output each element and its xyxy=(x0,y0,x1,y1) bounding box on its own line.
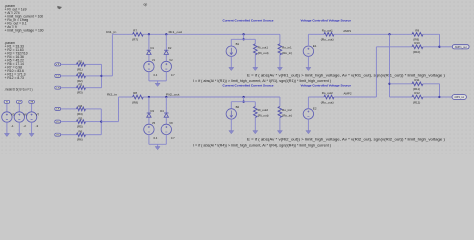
resistor R9 xyxy=(412,28,423,41)
svg-text:0.7: 0.7 xyxy=(171,73,175,77)
svg-text:AMP1: AMP1 xyxy=(343,29,351,33)
svg-text:{R12}: {R12} xyxy=(413,100,420,104)
resistor Ri_out2 xyxy=(254,102,269,131)
wire bank to rail Ri1_in xyxy=(102,75,113,77)
wire feedback A R10 to AMP2 xyxy=(375,47,377,97)
wire lower node bottom xyxy=(231,101,255,103)
junction top output node xyxy=(438,46,440,48)
wire E2 to Ro_out2 xyxy=(308,96,324,98)
ground bottom clamp xyxy=(157,144,159,146)
svg-text:D1: D1 xyxy=(151,46,155,50)
junction top bank xyxy=(100,75,102,77)
resistor R10 xyxy=(376,41,439,54)
svg-text:R11: R11 xyxy=(414,78,419,82)
current source B1 xyxy=(226,39,239,67)
svg-text:B2: B2 xyxy=(236,105,240,109)
svg-text:Ro_out1: Ro_out1 xyxy=(322,29,333,33)
svg-text:B1: B1 xyxy=(236,42,240,46)
svg-text:{R5}: {R5} xyxy=(77,125,83,129)
svg-text:R9: R9 xyxy=(415,28,419,32)
wire top rail left xyxy=(112,33,132,35)
wire to output port 1 xyxy=(440,46,453,48)
svg-text:0.4: 0.4 xyxy=(154,136,158,140)
svg-text:D3: D3 xyxy=(151,109,155,113)
resistor R12 xyxy=(412,91,440,104)
svg-text:Ro_in2: Ro_in2 xyxy=(282,108,292,112)
svg-text:{R7}: {R7} xyxy=(132,38,138,42)
voltage source E2 xyxy=(303,97,317,131)
svg-text:-2: -2 xyxy=(23,124,26,128)
junction D1 branch xyxy=(148,33,150,35)
ground Ro_in2 xyxy=(277,131,282,134)
svg-text:Ro_out2: Ro_out2 xyxy=(322,91,333,95)
svg-text:Current Controlled Current Sou: Current Controlled Current Source xyxy=(223,84,274,88)
junction AMP1 feedback xyxy=(388,33,390,35)
wire bottom bank to rail xyxy=(101,121,118,123)
resistor R7 on top rail xyxy=(132,29,143,42)
svg-text:.model D D( Is=1u n=1 ): .model D D( Is=1u n=1 ) xyxy=(5,88,33,92)
svg-text:-3: -3 xyxy=(36,124,39,128)
ground Ri_out1 xyxy=(253,67,258,70)
svg-text:R1: R1 xyxy=(79,59,83,63)
svg-text:{Ri_out}: {Ri_out} xyxy=(258,114,269,118)
svg-text:R5: R5 xyxy=(79,117,83,121)
voltage source V6 xyxy=(14,100,27,136)
svg-text:I = if ( abs(Ai * I(R4)) > lim: I = if ( abs(Ai * I(R4)) > limit_high_cu… xyxy=(193,143,331,147)
wire lower node top xyxy=(231,38,255,40)
wire R9 right corner xyxy=(423,33,440,35)
junction lower wire bottom xyxy=(242,101,244,103)
svg-text:Ri1_in: Ri1_in xyxy=(106,30,116,34)
svg-text:R4: R4 xyxy=(79,104,83,108)
resistor R3 xyxy=(55,83,86,95)
svg-text:Ri1_out: Ri1_out xyxy=(169,30,183,34)
ground Ri_out2 xyxy=(253,131,258,134)
svg-text:R7: R7 xyxy=(133,29,137,33)
junction bottom bank xyxy=(100,120,102,122)
svg-text:Current Controlled Current Sou: Current Controlled Current Source xyxy=(223,18,274,22)
svg-text:op: op xyxy=(144,2,148,6)
diode D3 xyxy=(147,97,155,117)
voltage source V2 xyxy=(161,55,175,81)
svg-text:+ R12 = 8.73: + R12 = 8.73 xyxy=(5,76,24,80)
wire top rail to clamp xyxy=(143,33,280,35)
svg-text:E = if ( abs(Av * v(Ri1_out)): E = if ( abs(Av * v(Ri1_out)) > limit_hi… xyxy=(247,74,445,78)
svg-text:{R3}: {R3} xyxy=(77,91,83,95)
svg-text:E1: E1 xyxy=(313,44,317,48)
svg-text:+ limit_high_voltage = 100: + limit_high_voltage = 100 xyxy=(5,29,44,33)
resistor R6 xyxy=(55,130,86,142)
wire top bank bus xyxy=(101,64,103,87)
svg-text:D2: D2 xyxy=(168,46,172,50)
diode D4 xyxy=(160,97,168,117)
wire bottom clamp join xyxy=(149,143,166,145)
svg-text:AMP2: AMP2 xyxy=(344,92,352,96)
wire feedback B AMP1 down xyxy=(389,34,391,97)
resistor R8 on bottom rail xyxy=(132,91,143,104)
junction rail jumper top xyxy=(242,33,244,35)
current source B2 xyxy=(226,102,239,131)
cursor artifact xyxy=(57,6,62,9)
diode D2 xyxy=(164,34,172,54)
junction D4 branch xyxy=(165,96,167,98)
svg-text:R2: R2 xyxy=(79,71,83,75)
voltage source V8 xyxy=(161,117,175,144)
junction lower wire top xyxy=(242,38,244,40)
wire top clamp join xyxy=(149,80,166,82)
svg-text:Ri_out1: Ri_out1 xyxy=(258,45,269,49)
resistor R4 xyxy=(55,104,86,116)
svg-text:AMP2_out: AMP2_out xyxy=(454,95,464,99)
wire bottom bank to bus xyxy=(86,108,102,110)
wire AMP1 drop corner to R12 xyxy=(390,96,413,98)
wire bottom bank bus xyxy=(100,109,102,135)
svg-text:R3: R3 xyxy=(79,83,83,87)
wire E1 to Ro_out1 xyxy=(308,33,324,35)
svg-text:{Ri_out}: {Ri_out} xyxy=(258,51,269,55)
diode D1 xyxy=(147,34,155,54)
voltage source V3 xyxy=(2,100,15,136)
resistor R11 xyxy=(390,78,440,91)
spice directive .param block 2 xyxy=(5,41,28,80)
spice directive .param block 1 xyxy=(5,4,44,33)
resistor Ri_out1 xyxy=(254,39,269,67)
svg-text:{Ro_in}: {Ro_in} xyxy=(282,114,292,118)
voltage source V7 xyxy=(26,100,39,136)
resistor R1 xyxy=(55,59,86,71)
svg-text:V7: V7 xyxy=(36,112,40,116)
junction rail jumper bottom xyxy=(242,96,244,98)
svg-text:Voltage Controlled Voltage Sou: Voltage Controlled Voltage Source xyxy=(301,18,352,22)
voltage source V5 xyxy=(144,117,158,144)
resistor Ro_in2 xyxy=(278,97,292,131)
svg-text:{R6}: {R6} xyxy=(77,138,83,142)
wire to output port 2 xyxy=(440,96,453,98)
svg-text:{R4}: {R4} xyxy=(77,112,83,116)
svg-text:{R8}: {R8} xyxy=(132,100,138,104)
ground E1 xyxy=(306,67,311,70)
ground top clamp xyxy=(157,81,159,83)
ground B1 xyxy=(229,67,234,70)
junction R11 tap xyxy=(388,83,390,85)
svg-text:Ri2_out: Ri2_out xyxy=(166,93,180,97)
resistor Ro_out1 xyxy=(321,29,334,42)
svg-text:V8: V8 xyxy=(169,121,173,125)
svg-text:R10: R10 xyxy=(414,41,420,45)
svg-text:E2: E2 xyxy=(313,107,317,111)
wire jumper bottom xyxy=(243,97,245,102)
junction bottom output node xyxy=(438,96,440,98)
wire AMP1 xyxy=(334,33,412,35)
svg-text:{R10}: {R10} xyxy=(413,50,420,54)
wire top bank to bus xyxy=(86,63,102,65)
resistor Ro_in1 xyxy=(278,34,292,67)
resistor Ro_out2 xyxy=(321,91,334,104)
svg-text:E = if ( abs(Av * v(Ri2_out)): E = if ( abs(Av * v(Ri2_out)) > limit_hi… xyxy=(247,138,445,142)
svg-text:0.7: 0.7 xyxy=(171,136,175,140)
junction D2 branch xyxy=(165,33,167,35)
svg-text:0.4: 0.4 xyxy=(154,73,158,77)
resistor R5 xyxy=(55,117,86,129)
wire jumper top xyxy=(243,34,245,39)
svg-text:{Ro_in}: {Ro_in} xyxy=(282,51,292,55)
svg-text:{Ro_out}: {Ro_out} xyxy=(321,100,334,104)
svg-text:R6: R6 xyxy=(79,130,83,134)
wire R11 right corner xyxy=(439,84,441,97)
ground B2 xyxy=(229,131,234,134)
svg-text:Ri_out2: Ri_out2 xyxy=(258,108,269,112)
wire bottom rail left xyxy=(119,96,133,98)
svg-text:AMP1_out: AMP1_out xyxy=(455,45,467,49)
svg-text:V2: V2 xyxy=(169,58,173,62)
resistor R2 xyxy=(55,71,86,83)
svg-text:Ro_in1: Ro_in1 xyxy=(282,45,292,49)
ground Ro_in1 xyxy=(277,67,282,70)
svg-text:V1: V1 xyxy=(152,58,156,62)
wire AMP2 xyxy=(334,96,376,98)
voltage source E1 xyxy=(303,34,317,67)
svg-text:Voltage Controlled Voltage Sou: Voltage Controlled Voltage Source xyxy=(301,84,352,88)
svg-text:V5: V5 xyxy=(152,121,156,125)
wire bottom rail to clamp xyxy=(143,96,280,98)
ground E2 xyxy=(306,131,311,134)
output port AMP2 flag xyxy=(452,95,466,100)
svg-text:I = if ( abs(Ai * I(R1)) > lim: I = if ( abs(Ai * I(R1)) > limit_high_cu… xyxy=(193,79,331,83)
voltage source V1 xyxy=(144,55,158,81)
svg-text:{Ro_out}: {Ro_out} xyxy=(321,37,334,41)
svg-text:D4: D4 xyxy=(160,109,164,113)
output port AMP1 flag xyxy=(452,45,469,49)
svg-text:Ri2_in: Ri2_in xyxy=(107,93,117,97)
svg-text:R8: R8 xyxy=(133,91,137,95)
svg-text:R12: R12 xyxy=(414,91,420,95)
junction D3 branch xyxy=(148,96,150,98)
svg-text:-1: -1 xyxy=(11,124,14,128)
